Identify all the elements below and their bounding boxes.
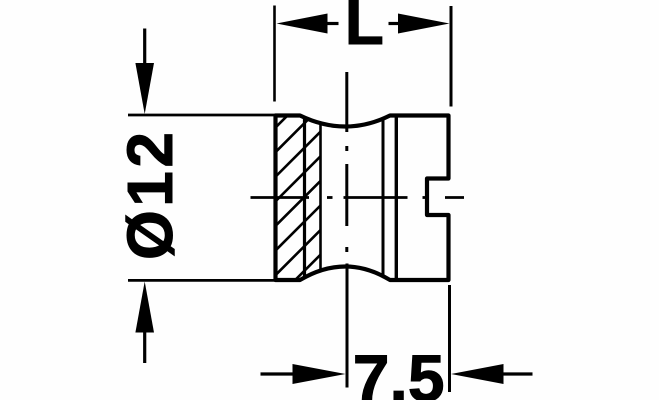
extension line bottom (diameter) [128,279,276,282]
svg-text:L: L [345,0,384,58]
neck tangent edge [382,118,385,277]
dimension arrow top (points down) [135,29,154,115]
horizontal centerline [251,196,465,199]
hatching (section lines) [113,83,321,291]
svg-text:Ø12: Ø12 [114,129,186,260]
extension line left (top dim) [273,6,276,102]
body outline (section view) [276,116,449,281]
extension line top (diameter) [128,114,276,117]
dimension arrow left (points right) [261,364,346,384]
dimension arrow bottom (points up) [135,282,154,364]
svg-text:7.5: 7.5 [353,341,445,400]
dimension arrow left (points left) [277,14,339,34]
extension line right [448,285,451,392]
extension line right (top dim) [450,6,453,107]
section boundary edge [319,123,322,272]
extension line left (merges with centerline below) [346,264,349,388]
dimension arrow right (points right) [389,14,450,34]
cylinder front edge [395,116,398,281]
dimension arrow right (points left) [451,364,533,384]
flange back edge [303,117,306,280]
vertical centerline [345,72,348,252]
